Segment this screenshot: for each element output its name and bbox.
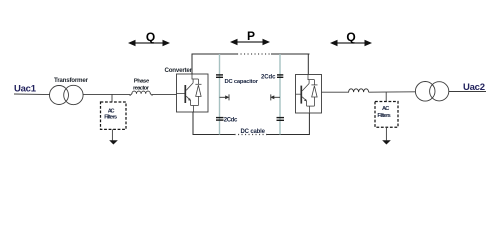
svg-text:DC cable: DC cable — [241, 129, 266, 135]
ground G2 — [382, 140, 391, 144]
converter U2 box — [296, 75, 322, 114]
wire converter U1 to bottom rail — [192, 112, 194, 136]
wire phase reactor L2 to transformer T2 — [369, 91, 416, 93]
svg-text:AC: AC — [108, 108, 115, 114]
wire top rail to converter U2 — [307, 54, 309, 75]
transformer T2 winding 2 — [430, 82, 449, 101]
wire Uac1 to transformer T1 — [14, 93, 50, 96]
svg-text:AC: AC — [382, 106, 389, 112]
converter U1 box — [177, 74, 209, 112]
DC cable bottom dotted — [235, 134, 268, 136]
svg-text:2Cdc: 2Cdc — [224, 118, 238, 124]
DC capacitor branch 1 (teal wire) — [219, 54, 221, 135]
wire junction down to AC filter F1 — [111, 94, 113, 102]
AC filter F1 label — [104, 108, 117, 120]
svg-text:reactor: reactor — [133, 86, 150, 92]
svg-text:Uac1: Uac1 — [14, 84, 37, 95]
wire AC filter F1 to ground — [111, 129, 113, 140]
capacitor C1 top plates — [216, 75, 223, 77]
AC filter F1 box — [101, 102, 127, 129]
capacitor C2 bottom plates — [216, 118, 224, 121]
DC link top rail (right solid) — [271, 53, 310, 55]
wire phase reactor L1 to converter U1 — [152, 94, 177, 96]
wire transformer T1 to phase reactor L1 — [83, 93, 130, 95]
phase reactor L1 coil — [130, 91, 153, 96]
voltage arrow Udc left — [220, 94, 230, 100]
transformer T1 winding 2 — [64, 85, 83, 104]
ground G1 — [109, 140, 118, 144]
power flow arrow Q2 (right reactive power) — [330, 40, 372, 46]
label phase reactor L1 — [133, 78, 150, 91]
svg-text:Filters: Filters — [104, 115, 117, 121]
svg-text:2Cdc: 2Cdc — [261, 74, 276, 80]
transformer T1 winding 1 — [50, 86, 69, 105]
converter U2 IGBT Q2 with diode D2 — [296, 75, 318, 113]
wire junction down to AC filter F2 — [385, 92, 387, 101]
DC link bottom rail (left solid) — [193, 134, 235, 136]
voltage arrow Udc right — [270, 94, 280, 100]
DC link bottom rail (right solid) — [267, 134, 309, 136]
wire converter U2 to bottom rail — [308, 113, 310, 135]
power flow arrow Q1 (left reactive power) — [128, 40, 170, 46]
DC capacitor branch 2 (teal wire) — [279, 54, 281, 135]
transformer T2 winding 1 — [415, 82, 435, 102]
svg-text:Q: Q — [346, 30, 355, 44]
wire transformer T2 to Uac2 — [449, 91, 486, 93]
power flow arrow P (active power) — [230, 39, 270, 45]
phase reactor L2 coil — [349, 89, 369, 92]
svg-text:Converter: Converter — [165, 67, 193, 74]
svg-text:Filters: Filters — [377, 113, 390, 119]
AC filter F2 box — [375, 102, 398, 128]
wire top rail to converter U1 — [191, 54, 193, 75]
DC link top rail (left solid) — [192, 53, 237, 55]
svg-text:DC capacitor: DC capacitor — [225, 79, 259, 85]
wire converter U2 to phase reactor L2 — [322, 91, 350, 93]
svg-text:Uac2: Uac2 — [463, 82, 485, 93]
svg-text:P: P — [247, 29, 255, 43]
wire AC filter F2 to ground — [385, 127, 387, 140]
converter U1 IGBT Q1 with diode D1 — [177, 74, 202, 112]
DC cable top dotted — [237, 53, 271, 55]
capacitor C3 top plates — [277, 75, 283, 77]
AC filter F2 label — [377, 106, 390, 119]
svg-text:Phase: Phase — [134, 78, 150, 84]
capacitor C4 bottom plates — [277, 118, 285, 121]
svg-text:Q: Q — [146, 30, 155, 44]
svg-text:Transformer: Transformer — [54, 77, 89, 84]
